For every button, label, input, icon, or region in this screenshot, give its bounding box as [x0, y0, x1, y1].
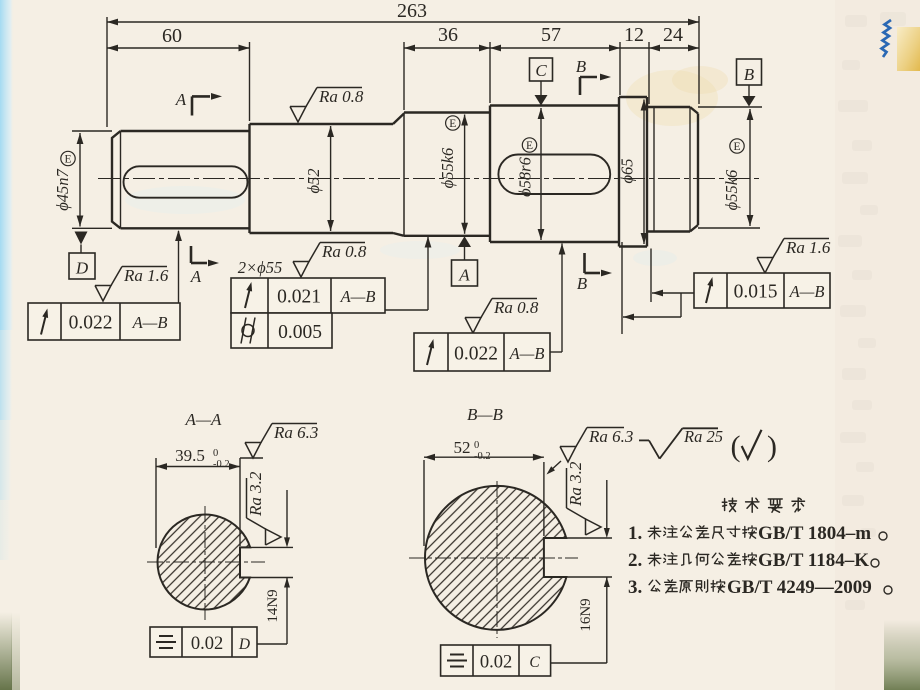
svg-text:2×ϕ55: 2×ϕ55: [238, 258, 282, 277]
svg-text:B: B: [577, 274, 588, 293]
svg-text:C: C: [535, 61, 547, 80]
tolerance frame1: runout 0.022 A-B: [28, 303, 180, 340]
svg-text:E: E: [449, 118, 456, 130]
svg-text:ϕ55k6: ϕ55k6: [722, 169, 741, 210]
svg-text:0.022: 0.022: [454, 344, 498, 365]
dimension 12: [620, 47, 649, 49]
svg-text:C: C: [529, 654, 540, 671]
svg-text:D: D: [75, 259, 89, 278]
svg-text:Ra 0.8: Ra 0.8: [493, 298, 539, 317]
svg-text:0: 0: [213, 448, 218, 459]
svg-text:Ra 0.8: Ra 0.8: [321, 242, 367, 261]
dimension 39.5 0/-0.2: [155, 458, 157, 548]
section B-B centerlines: [409, 557, 578, 559]
dimension 263 overall: [107, 21, 699, 23]
svg-text:Ra 6.3: Ra 6.3: [273, 423, 318, 442]
svg-text:A: A: [458, 266, 470, 285]
datum C symbol: [530, 58, 553, 81]
shaft section S5 (phi65 flange, 12 long): [618, 97, 620, 247]
cut marker B bottom: [583, 253, 586, 273]
leader frame2 to S3 bottom: [385, 309, 428, 311]
keyway slot extension lines A-A: [240, 546, 293, 548]
Ra 0.8 on S2 top: [290, 107, 306, 123]
svg-text:ϕ55k6: ϕ55k6: [438, 147, 457, 188]
svg-text:Ra 6.3: Ra 6.3: [588, 427, 633, 446]
svg-text:-0.2: -0.2: [213, 459, 230, 470]
svg-text:A: A: [175, 90, 187, 109]
svg-text:A—B: A—B: [132, 313, 168, 332]
dimension 16N9: [606, 480, 608, 529]
svg-text:Ra 0.8: Ra 0.8: [318, 87, 364, 106]
svg-text:A—B: A—B: [340, 287, 376, 306]
svg-text:ϕ58r6: ϕ58r6: [516, 156, 535, 196]
blue squiggle decoration: [882, 20, 892, 57]
svg-text:B: B: [576, 57, 587, 76]
svg-text:Ra 3.2: Ra 3.2: [246, 471, 265, 517]
datum D symbol: [75, 232, 88, 245]
svg-text:E: E: [526, 140, 533, 152]
Ra 6.3 on B-B with leader: [549, 461, 561, 472]
shaft section S6 (phi55k6, 24 long) with end chamfers: [647, 106, 690, 108]
svg-text:-0.2: -0.2: [474, 451, 491, 462]
Ra 1.6 above frame1: [95, 286, 111, 302]
dimension 14N9: [286, 490, 288, 539]
svg-text:E: E: [733, 141, 740, 153]
extension lines flange faces: [621, 242, 623, 334]
shaft centerline: [98, 178, 762, 180]
Ra 0.8 above frame2: [293, 262, 309, 278]
shaft section S2 (phi52): [248, 124, 250, 233]
svg-text:3.: 3.: [628, 577, 642, 598]
leader frame4 to flange right face: [652, 292, 694, 294]
svg-text:16N9: 16N9: [578, 598, 594, 631]
svg-text:A—A: A—A: [185, 410, 223, 429]
svg-text:263: 263: [397, 0, 427, 22]
svg-text:12: 12: [624, 24, 644, 46]
dimension 24: [649, 47, 699, 49]
leader frame4 to flange left face: [680, 293, 682, 317]
tolerance frame2 row1: runout 0.021 A-B: [231, 278, 385, 313]
svg-text:0.02: 0.02: [191, 634, 223, 654]
svg-text:24: 24: [663, 24, 683, 46]
svg-text:60: 60: [162, 25, 182, 47]
dimension phi45n7(E): [72, 130, 112, 132]
dimension phi52: [330, 126, 332, 231]
svg-text:Ra 3.2: Ra 3.2: [566, 461, 585, 507]
scan smudges: [626, 70, 718, 126]
svg-text:52: 52: [454, 438, 471, 457]
datum B symbol: [737, 59, 762, 85]
dimension 57: [490, 47, 620, 49]
svg-text:Ra 25: Ra 25: [683, 427, 723, 446]
svg-text:39.5: 39.5: [175, 446, 205, 465]
bottom-left olive strip: [0, 612, 12, 690]
svg-text:0.015: 0.015: [734, 282, 778, 303]
dimension 60: [107, 47, 250, 49]
tolerance frame3: runout 0.022 A-B: [414, 333, 550, 371]
svg-text:36: 36: [438, 24, 458, 46]
top-right tan tab: [897, 27, 920, 71]
cut marker A bottom: [190, 246, 193, 263]
svg-text:A: A: [190, 267, 202, 286]
svg-text:E: E: [64, 154, 71, 166]
bottom-right olive block: [884, 620, 920, 690]
svg-text:0.005: 0.005: [278, 322, 322, 343]
Ra 0.8 above frame3: [465, 318, 481, 334]
extension lines for top dimensions: [106, 17, 108, 127]
dimension 52 0/-0.2: [423, 460, 425, 546]
Ra 3.2 rotated on A-A: [246, 471, 281, 545]
svg-text:0.021: 0.021: [277, 287, 321, 308]
svg-text:B: B: [744, 65, 755, 84]
svg-text:GB/T 4249—2009: GB/T 4249—2009: [727, 577, 872, 598]
svg-text:D: D: [238, 636, 250, 653]
svg-text:A—B: A—B: [509, 344, 545, 363]
svg-text:ϕ65: ϕ65: [618, 158, 637, 183]
svg-text:ϕ45n7: ϕ45n7: [53, 168, 72, 210]
tolerance frame2 row2: cylindricity 0.005: [231, 313, 332, 348]
technical requirements title: [722, 498, 736, 511]
svg-text:A—B: A—B: [789, 282, 825, 301]
svg-text:GB/T 1804–m: GB/T 1804–m: [758, 523, 871, 544]
general Ra 25 symbol: [639, 439, 649, 441]
dimension phi55k6(E) S3 + datum A: [464, 115, 466, 234]
Ra 1.6 above frame4: [757, 258, 773, 274]
datum A symbol: [458, 236, 471, 247]
svg-text:2.: 2.: [628, 550, 642, 571]
keyway slot on S4: [498, 155, 610, 195]
Ra 6.3 on A-A: [240, 457, 263, 459]
tolerance frame4: runout 0.015 A-B: [694, 273, 830, 308]
svg-text:57: 57: [541, 24, 561, 46]
svg-text:0.022: 0.022: [69, 313, 113, 334]
keyway slot extension lines B-B: [544, 537, 612, 539]
section A-A centerlines: [147, 561, 265, 563]
leader frame3 to S4 bottom: [550, 351, 562, 353]
Ra 3.2 rotated on B-B: [566, 461, 601, 535]
svg-text:ϕ52: ϕ52: [304, 168, 323, 193]
shaft section S1 (phi45n7 journal) with chamfers: [112, 131, 121, 228]
svg-text:): ): [767, 430, 777, 463]
svg-text:1.: 1.: [628, 523, 642, 544]
svg-text:0: 0: [474, 440, 479, 451]
keyway slot on S1: [124, 166, 248, 197]
svg-text:Ra 1.6: Ra 1.6: [785, 238, 831, 257]
shaft section S3 (phi55k6, 36 long): [403, 113, 405, 236]
shaft section S4 (phi58r6, 57 long): [489, 106, 491, 243]
svg-text:GB/T 1184–K: GB/T 1184–K: [758, 550, 869, 571]
svg-text:14N9: 14N9: [265, 589, 281, 622]
dimension 36: [404, 47, 490, 49]
tolerance frame5: symmetry 0.02 C: [551, 662, 607, 664]
tolerance frame6: symmetry 0.02 D: [257, 643, 287, 645]
svg-text:Ra 1.6: Ra 1.6: [123, 266, 169, 285]
svg-text:0.02: 0.02: [480, 653, 512, 673]
section B-B hatched circle with keyway: [425, 486, 566, 630]
svg-text:B—B: B—B: [467, 405, 504, 424]
leader to frame1: [178, 231, 180, 303]
svg-text:(: (: [731, 430, 741, 463]
dimension phi55k6(E) S6 + datum B: [698, 106, 762, 108]
dimension phi65: [643, 100, 645, 245]
section A-A hatched circle with keyway: [157, 515, 250, 610]
dimension phi58r6(E) + datum C: [540, 108, 542, 240]
